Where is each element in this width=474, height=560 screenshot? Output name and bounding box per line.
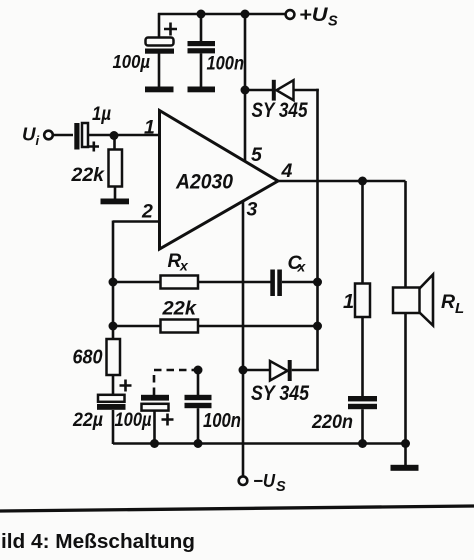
wire diode V2 to node X [292,369,319,372]
wire top +Us rail [158,13,286,16]
junction dot Rx row right [313,278,322,287]
capacitor C5 100u lower lead [153,411,156,444]
ground bar under R1 [101,199,130,205]
wire pin 3 / -Us vertical [242,201,245,477]
junction dot input node [110,131,119,140]
svg-text:1: 1 [343,291,354,313]
capacitor C5 100u plates [141,395,169,401]
junction dot 22k row right [313,322,322,331]
capacitor C1 100u plus sign [164,23,177,36]
svg-text:SY 345: SY 345 [251,381,310,405]
svg-text:+U: +U [299,4,329,26]
junction dot diode row [241,86,250,95]
junction dot top rail / +Us vertical [241,10,250,19]
svg-text:5: 5 [251,144,263,166]
wire diode V1 to node X [294,89,319,92]
capacitor C1 100u plates [146,38,174,46]
svg-text:22µ: 22µ [72,409,103,431]
junction dot 22k row left [109,322,118,331]
capacitor C5 100u plus sign [162,414,174,426]
resistor R1 22k lead [113,135,116,150]
svg-text:x: x [297,259,307,275]
svg-text:1µ: 1µ [92,103,111,125]
wire 22k row [113,325,318,328]
wire C3 to pin 1 [88,134,160,137]
svg-text:ild 4: Meßschaltung: ild 4: Meßschaltung [1,531,195,553]
speaker RL horn [420,275,434,326]
svg-text:1: 1 [144,117,155,139]
junction dot -Us row / pin3 [239,366,248,375]
wire pin 2 [113,220,159,223]
capacitor C3 1u plus sign [89,142,100,152]
svg-text:S: S [276,479,286,495]
capacitor C6 100n plates [185,395,212,400]
op-amp U1 A2030 triangle [160,111,279,250]
wire to diode V1 [245,89,272,92]
capacitor C7 220n plates [348,396,377,401]
svg-text:R: R [441,291,455,313]
junction dot rail / C6 [194,439,203,448]
svg-text:S: S [328,13,338,29]
ground bar under C1 [145,87,174,93]
junction dot rail / C7 [358,439,367,448]
ground bar under C2 [188,87,216,93]
resistor R1 22k body [109,150,123,187]
diode V1 SY345 triangle [277,80,294,100]
svg-text:100µ: 100µ [115,409,152,431]
resistor R3 680 body [107,339,121,375]
speaker lower lead [404,313,407,466]
ground bar bottom right [391,465,419,471]
svg-text:SY 345: SY 345 [252,99,308,122]
wire +Us vertical to pin 5 [244,14,247,162]
capacitor C2 100n plates [188,41,216,46]
svg-text:i: i [36,133,40,148]
wire Ui to C3 [53,134,73,137]
junction dot top rail / C2 [197,10,206,19]
resistor R4 1 lead from output [361,181,364,284]
svg-text:A2030: A2030 [175,170,233,194]
wire dashed option link [154,370,196,395]
junction dot rail / C5 [150,439,159,448]
wire speaker vertical [404,181,407,288]
svg-text:100µ: 100µ [113,51,151,72]
capacitor C4 22u plates [98,395,125,402]
svg-text:4: 4 [281,160,293,182]
capacitor Cx plates [270,270,275,297]
svg-text:L: L [455,300,464,317]
resistor R1 22k lower lead [114,187,117,200]
terminal Ui [44,131,53,140]
capacitor C1 100u lead from rail [158,13,161,37]
speaker RL box [393,288,420,314]
capacitor C6 100n lower lead [197,408,200,444]
capacitor C7 220n lower lead [361,409,364,444]
capacitor C2 100n lower lead [200,53,203,87]
capacitor C2 100n lead [200,14,203,41]
svg-text:100n: 100n [207,53,245,75]
capacitor C7 220n lead [361,317,364,396]
capacitor C4 22u lower lead [112,410,115,444]
svg-text:22k: 22k [71,164,106,186]
svg-text:22k: 22k [161,298,197,320]
svg-text:2: 2 [141,201,153,223]
wire 680 to 22u [112,375,115,395]
junction dot output / R 1 [358,177,367,186]
capacitor C6 100n lead [197,370,200,395]
svg-text:680: 680 [73,347,103,369]
caption rule [0,506,474,511]
terminal +Us [286,10,295,19]
resistor Rx body [161,276,199,289]
svg-text:100n: 100n [203,410,241,432]
svg-text:x: x [179,258,189,274]
wire node X vertical [316,89,319,370]
wire Rx row left [113,281,271,284]
wire Cx to node X [282,281,318,284]
wire left vertical [112,221,115,340]
diode V2 SY345 cathode bar [288,360,292,381]
svg-text:U: U [22,125,37,145]
diode V1 SY345 cathode bar [272,80,276,101]
capacitor C3 1u plates [74,123,79,150]
terminal -Us [239,476,248,485]
wire bottom ground rail [113,442,406,445]
svg-text:−U: −U [253,470,276,491]
svg-text:3: 3 [247,199,258,221]
junction dot Rx row left [109,278,118,287]
capacitor C1 100u lower lead [158,54,161,88]
wire -Us row to diode V2 [243,369,270,372]
resistor R2 22k body [161,320,199,333]
wire output pin 4 [278,180,406,183]
junction dot -Us row / C6 [194,366,203,375]
resistor R4 1 body [355,284,370,318]
svg-text:220n: 220n [311,411,353,433]
diode V2 SY345 triangle [270,361,288,381]
junction dot rail / speaker [401,439,410,448]
capacitor C4 22u plus sign [120,380,132,392]
